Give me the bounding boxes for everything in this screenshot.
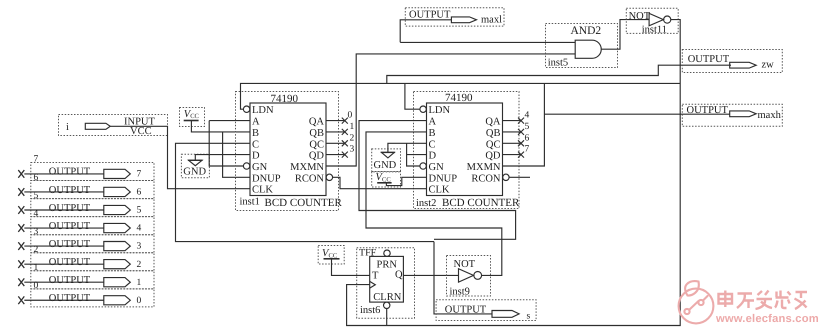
svg-text:7: 7	[525, 145, 530, 155]
svg-text:CLK: CLK	[429, 185, 450, 196]
svg-text:AND2: AND2	[571, 25, 602, 37]
watermark logo elecfans	[679, 281, 714, 323]
svg-text:74190: 74190	[445, 92, 473, 104]
svg-text:GND: GND	[374, 160, 397, 171]
ground symbol GND2	[372, 149, 401, 172]
svg-text:s: s	[527, 312, 531, 322]
svg-text:2: 2	[137, 260, 142, 270]
svg-text:OUTPUT: OUTPUT	[49, 221, 91, 232]
svg-text:3: 3	[350, 145, 355, 155]
QD1 stub node 3	[326, 145, 355, 158]
output pin 5	[18, 191, 154, 217]
svg-text:3: 3	[137, 242, 142, 252]
output pin 3	[18, 227, 154, 253]
output pin 4	[18, 209, 154, 235]
wire GND2 to C2 D2 GN2	[388, 143, 427, 152]
watermark text dian zi fa shao you	[719, 291, 808, 310]
svg-text:QB: QB	[309, 128, 324, 139]
svg-text:6: 6	[137, 188, 142, 198]
svg-text:maxh: maxh	[758, 110, 782, 121]
svg-text:BCD COUNTER: BCD COUNTER	[265, 197, 343, 209]
svg-text:6: 6	[525, 133, 530, 143]
svg-text:QA: QA	[309, 117, 325, 128]
svg-text:QD: QD	[309, 151, 325, 162]
svg-text:C: C	[252, 139, 259, 150]
svg-text:OUTPUT: OUTPUT	[49, 239, 91, 250]
output pin 1	[18, 263, 154, 289]
output pin 6	[18, 173, 154, 199]
t flip-flop TFF inst6	[357, 248, 415, 319]
svg-text:4: 4	[525, 111, 530, 121]
svg-text:4: 4	[34, 209, 39, 219]
svg-text:RCON: RCON	[471, 173, 501, 184]
QB1 stub node 1	[326, 122, 355, 135]
svg-text:i: i	[66, 122, 69, 133]
svg-text:OUTPUT: OUTPUT	[445, 305, 487, 316]
wire RCON1 to CLK2	[333, 177, 427, 188]
svg-text:inst11: inst11	[642, 24, 667, 35]
svg-text:CC: CC	[190, 113, 199, 120]
wire zw tap	[387, 65, 731, 83]
wire CLRN to clock net	[386, 309, 388, 326]
QA2 stub node 4	[503, 111, 530, 124]
svg-text:7: 7	[34, 155, 39, 165]
QA1 stub node 0	[326, 111, 353, 124]
svg-text:0: 0	[34, 281, 39, 291]
wire VCC3 to T input	[332, 259, 370, 276]
svg-text:OUTPUT: OUTPUT	[49, 203, 91, 214]
svg-text:3: 3	[34, 227, 39, 237]
svg-text:CLK: CLK	[252, 185, 273, 196]
VCC symbol near counter2	[372, 172, 401, 188]
svg-text:MXMN: MXMN	[467, 162, 501, 173]
VCC symbol near TFF	[318, 246, 344, 265]
svg-text:5: 5	[34, 191, 39, 201]
svg-text:0: 0	[137, 296, 142, 306]
QB2 stub node 5	[503, 122, 530, 135]
svg-text:OUTPUT: OUTPUT	[687, 105, 729, 116]
input pin i	[59, 115, 168, 138]
svg-text:5: 5	[137, 206, 142, 216]
wire VCC to B1 and DNUP1	[191, 121, 250, 132]
wire LDN2 riser	[405, 83, 420, 109]
svg-text:D: D	[252, 151, 260, 162]
svg-text:OUTPUT: OUTPUT	[49, 275, 91, 286]
svg-text:OUTPUT: OUTPUT	[49, 257, 91, 268]
wire B2 from NOT9 output	[366, 132, 502, 276]
wire VCC2 to DNUP2	[386, 177, 426, 185]
svg-text:OUTPUT: OUTPUT	[409, 9, 451, 20]
svg-text:GN: GN	[429, 162, 445, 173]
svg-text:www.elecfans.com: www.elecfans.com	[715, 313, 819, 325]
svg-text:B: B	[252, 128, 259, 139]
svg-text:inst9: inst9	[450, 286, 470, 297]
QC1 stub node 2	[326, 133, 355, 146]
wire maxh tap	[544, 113, 729, 115]
output pin 2	[18, 245, 154, 271]
svg-text:QD: QD	[485, 151, 501, 162]
output pin 7	[18, 155, 154, 181]
and gate AND2 inst5	[546, 24, 618, 69]
svg-text:LDN: LDN	[252, 105, 274, 116]
wire NOT11 out down right side to TFF clock	[347, 20, 681, 326]
svg-text:maxl: maxl	[481, 15, 502, 26]
svg-text:RCON: RCON	[295, 173, 325, 184]
wire AND2 out to NOT11	[601, 20, 649, 50]
wire Q to NOT9 input	[403, 274, 458, 276]
svg-text:GND: GND	[183, 167, 206, 178]
svg-text:VCC: VCC	[130, 126, 152, 137]
svg-text:QA: QA	[485, 117, 501, 128]
svg-text:NOT: NOT	[454, 259, 476, 270]
svg-text:OUTPUT: OUTPUT	[49, 167, 91, 178]
inverter NOT inst9	[447, 256, 491, 298]
svg-text:BCD COUNTER: BCD COUNTER	[442, 197, 520, 209]
svg-text:OUTPUT: OUTPUT	[49, 185, 91, 196]
wire MXMN1 to AND2 input 2	[326, 54, 575, 166]
ground symbol GND1	[181, 154, 209, 177]
wire AND2 input 1 from maxl	[400, 41, 575, 43]
svg-text:4: 4	[137, 224, 142, 234]
svg-text:CLRN: CLRN	[373, 292, 401, 303]
svg-text:inst6: inst6	[360, 305, 380, 316]
svg-text:QC: QC	[486, 139, 501, 150]
BCD counter 74190 U1 inst1	[236, 92, 343, 211]
svg-text:2: 2	[350, 133, 355, 143]
wire LDN chain net	[241, 83, 681, 109]
svg-text:DNUP: DNUP	[252, 173, 281, 184]
QC2 stub node 6	[503, 133, 530, 146]
svg-text:LDN: LDN	[429, 105, 451, 116]
wire i to CLK1	[110, 126, 250, 188]
output pin s	[436, 300, 536, 322]
svg-text:C: C	[429, 139, 436, 150]
wire MXMN2 to LDN net	[503, 83, 545, 166]
svg-text:inst5: inst5	[548, 58, 568, 69]
svg-text:A: A	[252, 117, 260, 128]
wire A2 from Q net	[359, 121, 516, 240]
svg-text:OUTPUT: OUTPUT	[49, 293, 91, 304]
output pin 0	[18, 281, 154, 307]
wire maxl riser	[400, 20, 451, 42]
svg-text:Q: Q	[395, 270, 403, 281]
svg-text:0: 0	[348, 111, 353, 121]
svg-text:inst2: inst2	[416, 198, 436, 209]
svg-text:OUTPUT: OUTPUT	[688, 54, 730, 65]
svg-text:2: 2	[34, 245, 39, 255]
svg-text:NOT: NOT	[629, 11, 651, 22]
VCC symbol near counter1	[180, 108, 205, 127]
svg-text:inst1: inst1	[240, 197, 260, 208]
svg-text:B: B	[429, 128, 436, 139]
wire C1 from Q net	[176, 143, 435, 241]
svg-text:1: 1	[350, 122, 355, 132]
svg-text:MXMN: MXMN	[290, 162, 324, 173]
inverter NOT inst11	[626, 8, 678, 35]
svg-text:1: 1	[34, 263, 39, 273]
wire Q to s output	[434, 242, 492, 314]
svg-text:QC: QC	[309, 139, 324, 150]
svg-text:QB: QB	[486, 128, 501, 139]
svg-text:6: 6	[34, 173, 39, 183]
svg-text:D: D	[429, 151, 437, 162]
wire GND1 to A1 D1 GN1	[195, 155, 250, 161]
output pin maxl	[405, 8, 504, 26]
output pin maxh	[682, 104, 782, 126]
svg-text:GN: GN	[252, 162, 268, 173]
svg-text:zw: zw	[762, 60, 775, 71]
wire RCON2 stub	[509, 176, 530, 178]
svg-text:T: T	[372, 271, 379, 282]
svg-text:7: 7	[137, 170, 142, 180]
BCD counter 74190 U2 inst2	[414, 92, 520, 210]
svg-text:DNUP: DNUP	[429, 173, 458, 184]
output pin zw	[682, 50, 782, 73]
QD2 stub node 7	[503, 145, 530, 158]
svg-text:5: 5	[525, 122, 530, 132]
svg-text:1: 1	[137, 278, 142, 288]
svg-text:A: A	[429, 117, 437, 128]
